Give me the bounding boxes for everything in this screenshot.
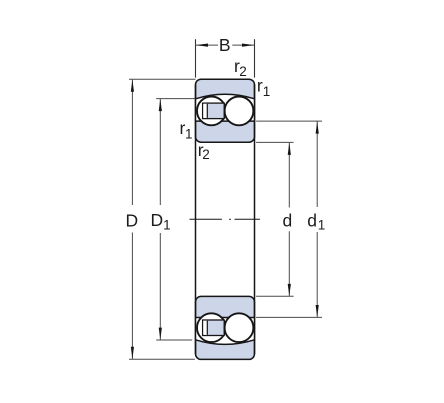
outer ring bottom section: [196, 296, 255, 359]
raceway band top section: [196, 94, 255, 121]
svg-text:d: d: [283, 211, 293, 231]
extension line d1 top: [256, 120, 322, 122]
svg-text:1: 1: [318, 218, 326, 233]
raceway band bottom section: [196, 318, 255, 345]
svg-text:D: D: [151, 210, 164, 230]
ball left top: [197, 97, 226, 126]
dimension line D: [131, 80, 134, 360]
extension line D1 top: [156, 98, 195, 100]
extension line d bottom: [256, 295, 294, 297]
extension line d top: [256, 141, 294, 143]
bearing side face line right: [254, 85, 256, 355]
svg-text:1: 1: [185, 126, 193, 141]
ball left bottom: [197, 313, 226, 342]
bearing side face line left: [195, 85, 197, 355]
inner ring shoulder line bottom: [196, 317, 255, 319]
dimension line D1: [159, 99, 162, 340]
dimension line d: [288, 143, 291, 297]
svg-text:2: 2: [239, 64, 247, 79]
outer raceway arc top: [196, 94, 255, 99]
inner ring shoulder line top: [196, 120, 255, 122]
dimension line d1: [316, 121, 319, 317]
svg-text:2: 2: [202, 147, 210, 162]
extension line B right: [254, 39, 256, 77]
svg-text:d: d: [307, 211, 317, 231]
svg-text:B: B: [219, 35, 231, 55]
svg-text:D: D: [126, 210, 139, 230]
extension line D1 bottom: [156, 339, 192, 341]
outer raceway arc bottom: [196, 340, 255, 345]
centerline axis: [190, 218, 260, 220]
svg-text:1: 1: [263, 84, 271, 99]
cage section bottom: [203, 320, 225, 336]
dimension line B: [196, 44, 255, 47]
extension line d1 bottom: [256, 316, 322, 318]
svg-text:1: 1: [163, 218, 171, 233]
extension line D bottom: [129, 358, 195, 360]
extension line B left: [195, 39, 197, 77]
cage section top: [203, 103, 225, 119]
outer ring top section: [196, 79, 255, 142]
ball right bottom: [225, 313, 254, 342]
extension line D top: [129, 78, 196, 80]
ball right top: [225, 97, 254, 126]
